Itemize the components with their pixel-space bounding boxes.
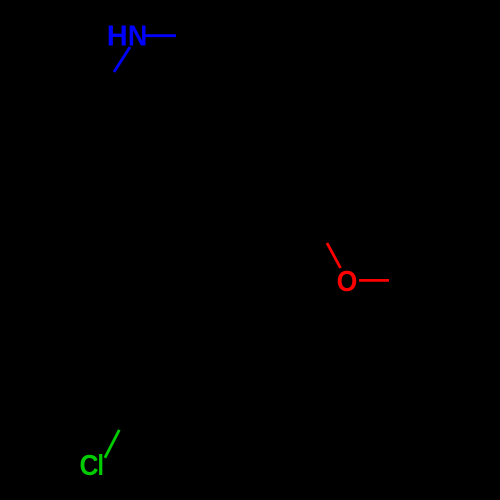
svg-text:l: l xyxy=(97,448,103,481)
svg-text:O: O xyxy=(337,265,358,297)
svg-text:H: H xyxy=(107,21,128,53)
svg-text:C: C xyxy=(80,449,99,481)
svg-text:N: N xyxy=(128,20,147,52)
